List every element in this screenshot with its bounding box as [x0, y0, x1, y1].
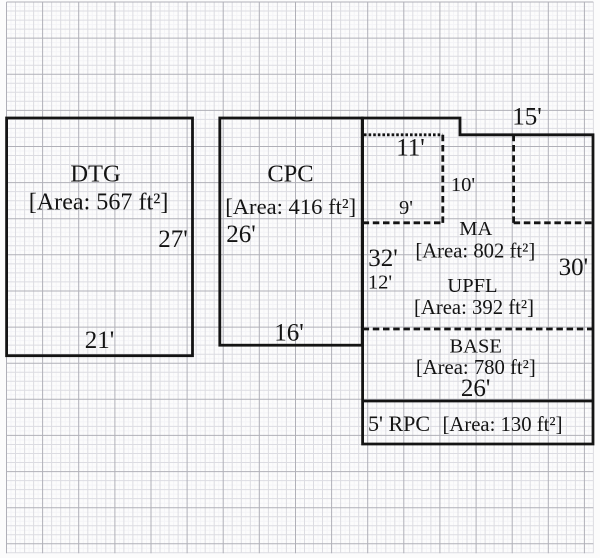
- svg-text:21': 21': [85, 327, 115, 354]
- svg-text:CPC: CPC: [267, 161, 313, 188]
- dashed wall right horizontal: [514, 221, 593, 224]
- svg-text:30': 30': [559, 254, 589, 281]
- svg-text:DTG: DTG: [70, 161, 120, 188]
- svg-text:[Area: 567 ft²]: [Area: 567 ft²]: [29, 190, 169, 216]
- dashed closet wall vertical right: [512, 135, 515, 223]
- dashed closet wall vertical left 10ft: [441, 135, 444, 223]
- svg-text:[Area: 416 ft²]: [Area: 416 ft²]: [225, 194, 356, 219]
- svg-text:[Area: 392 ft²]: [Area: 392 ft²]: [414, 297, 534, 319]
- svg-text:UPFL: UPFL: [447, 275, 497, 297]
- svg-text:26': 26': [461, 375, 491, 402]
- svg-text:11': 11': [396, 135, 425, 162]
- svg-text:26': 26': [226, 221, 256, 248]
- room CPC outline: [220, 118, 362, 345]
- svg-text:BASE: BASE: [449, 336, 501, 358]
- svg-text:10': 10': [451, 174, 475, 196]
- svg-text:MA: MA: [459, 218, 492, 240]
- wall between BASE and RPC: [363, 400, 593, 403]
- room DTG outline: [7, 118, 193, 356]
- svg-text:15': 15': [512, 104, 542, 131]
- svg-text:16': 16': [274, 320, 304, 347]
- dotted wall 11ft: [364, 133, 443, 136]
- svg-text:32': 32': [368, 245, 398, 272]
- dashed wall 9ft horizontal: [363, 221, 443, 224]
- svg-text:27': 27': [158, 226, 188, 253]
- rooms MA/UPFL/BASE outline polygon: [363, 118, 593, 444]
- svg-text:[Area: 130 ft²]: [Area: 130 ft²]: [443, 414, 563, 436]
- svg-text:5' RPC: 5' RPC: [368, 411, 430, 436]
- svg-text:12': 12': [368, 271, 392, 293]
- dashed wall between UPFL and BASE: [363, 328, 593, 331]
- svg-text:9': 9': [399, 197, 413, 219]
- svg-text:[Area: 802 ft²]: [Area: 802 ft²]: [415, 241, 535, 263]
